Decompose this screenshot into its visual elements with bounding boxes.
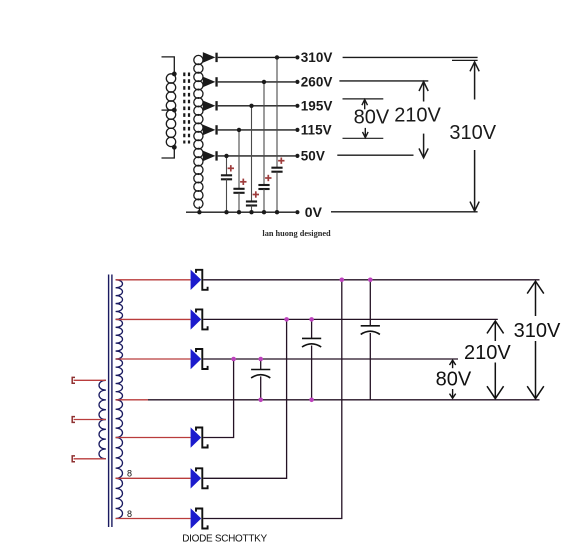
node: primary center tap [172, 108, 177, 113]
wire: primary terminal stub 1 [74, 379, 106, 381]
junction: D5 riser on 210V row [284, 317, 289, 322]
wire: riser from row to capacitor C1 [276, 57, 278, 167]
dimension arrow 310V bottom (up) [527, 281, 544, 316]
label: C2 polarity + [265, 175, 271, 181]
schottky diode D2 [191, 309, 208, 329]
transformer T1 core (dashed) [184, 73, 189, 144]
svg-text:DIODE SCHOTTKY: DIODE SCHOTTKY [182, 533, 267, 544]
junction: C7 on row [309, 317, 314, 322]
schottky diode D3 [191, 349, 208, 369]
pin: primary connector pin 2 [72, 417, 75, 423]
transformer T2 primary winding [99, 380, 106, 459]
dimension arrow 210V bottom (down) [487, 363, 504, 399]
capacitor C6 (polarized) [251, 370, 270, 378]
dimension arrow 210V (down) [419, 134, 428, 158]
node: 310V terminal [295, 55, 299, 59]
node: primary bottom tap [172, 145, 177, 150]
wire: capacitor C5 to 0V rail [226, 179, 228, 212]
junction on row at x=252 [249, 104, 253, 108]
wire: riser from row to capacitor C3 [251, 106, 253, 202]
diode D3 [203, 101, 218, 112]
pin: primary connector pin 1 [72, 377, 75, 383]
label: C4 polarity + [240, 179, 246, 185]
wire: riser from row to capacitor C5 [226, 156, 228, 175]
wire: diode D6 output to 310V row [203, 280, 342, 519]
wire: secondary tap to diode D2 [116, 318, 191, 320]
wire: 310V dimension tick [452, 59, 478, 61]
wire: 310V row (bottom diagram) [203, 279, 539, 281]
svg-text:80V: 80V [354, 107, 390, 129]
capacitor C7 (polarized) [302, 338, 321, 347]
wire: 210V row (bottom diagram) [203, 318, 498, 320]
wire: capacitor C4 to 0V rail [238, 193, 240, 212]
svg-text:50V: 50V [301, 149, 325, 164]
wire: 195V row [218, 105, 296, 107]
wire: 80V row (bottom diagram) [203, 358, 458, 360]
svg-text:310V: 310V [449, 122, 496, 144]
wire: C6 top lead [260, 359, 262, 370]
wire: C8 bottom lead [369, 333, 371, 400]
junction on row at x=239 [237, 128, 241, 132]
dimension arrow 80V (down) [363, 128, 369, 138]
node: 115V terminal [295, 128, 299, 132]
label: C1 polarity + [278, 158, 284, 164]
transformer T1 primary winding [162, 57, 176, 158]
junction on 0V rail at x=277 [275, 210, 279, 214]
dimension arrow 310V (down) [470, 150, 479, 211]
dimension arrow 80V (up) [362, 100, 368, 110]
junction on row at x=226 [224, 154, 228, 158]
dimension arrow 80V bottom (down) [450, 389, 456, 398]
wire: capacitor C2 to 0V rail [263, 189, 265, 212]
wire: diode D5 output to 210V row [203, 319, 286, 478]
svg-text:lan huong designed: lan huong designed [262, 229, 331, 238]
svg-text:260V: 260V [301, 75, 333, 90]
pin: primary connector pin 3 [72, 456, 75, 462]
wire: riser from row to capacitor C4 [238, 130, 240, 189]
transformer T1 secondary winding [194, 55, 203, 212]
schottky diode D5 [191, 468, 208, 488]
junction on 0V rail at x=264 [262, 210, 266, 214]
wire: C7 bottom lead [311, 346, 313, 400]
wire: secondary tap to diode D3 [116, 358, 191, 360]
diode D1 [203, 52, 218, 63]
dimension arrow 310V bottom (down) [527, 341, 544, 399]
wire: primary center tap stub [162, 109, 175, 111]
svg-text:210V: 210V [394, 105, 441, 127]
wire: 0V reference line [331, 211, 478, 213]
wire: C6 bottom lead [260, 376, 262, 399]
wire: secondary tap to diode D5 [116, 477, 191, 479]
transformer T2 core [109, 275, 112, 528]
diode D5 [203, 151, 218, 162]
junction: C8 on row [368, 278, 373, 283]
dimension arrow 210V bottom (up) [487, 321, 504, 341]
wire: 260V reference line [339, 80, 428, 82]
junction: C6 on 0V rail [258, 398, 263, 403]
wire: C7 top lead [311, 319, 313, 338]
svg-text:195V: 195V [301, 99, 333, 114]
wire: capacitor C3 to 0V rail [251, 206, 253, 213]
wire: secondary tap to diode D4 [116, 437, 191, 439]
node: 50V terminal [295, 154, 299, 158]
capacitor C4 [233, 189, 244, 193]
wire: secondary tap to diode D1 [116, 279, 191, 281]
svg-text:0V: 0V [305, 204, 323, 220]
dimension arrow 210V (up) [419, 82, 428, 102]
wire: 80V lower reference line [343, 137, 384, 139]
junction: secondary bottom to 0V rail [197, 210, 201, 214]
schottky diode D6 [191, 508, 208, 528]
dimension arrow 310V (up) [470, 62, 479, 100]
label: C3 polarity + [253, 191, 259, 197]
svg-text:8: 8 [127, 509, 132, 519]
junction: D6 riser on 310V row [340, 278, 345, 283]
schottky diode D1 [191, 270, 208, 290]
wire: 0V rail [186, 211, 295, 213]
svg-text:210V: 210V [464, 342, 511, 364]
diode D2 [203, 77, 218, 88]
wire: 0V rail (bottom diagram) [148, 399, 540, 401]
svg-text:115V: 115V [301, 123, 332, 138]
label: C5 polarity + [228, 165, 234, 171]
capacitor C5 [221, 175, 232, 179]
wire: primary terminal stub 2 [74, 419, 106, 421]
wire: secondary tap to diode D6 [116, 518, 191, 520]
wire: 115V row [218, 129, 296, 131]
node: 260V terminal [295, 80, 299, 84]
wire: 310V row [218, 56, 296, 58]
wire: 50V reference line [337, 154, 413, 156]
transformer T2 secondary winding [116, 280, 123, 519]
node: 0V terminal [295, 210, 299, 214]
wire: 310V reference line [343, 56, 478, 58]
wire: 80V upper reference line [343, 98, 384, 100]
capacitor C8 (polarized) [361, 326, 380, 335]
node: primary top tap [172, 72, 177, 77]
node: 195V terminal [295, 104, 299, 108]
svg-text:80V: 80V [436, 368, 472, 390]
wire: riser from row to capacitor C2 [263, 82, 265, 185]
wire: C8 top lead [369, 280, 371, 326]
wire: secondary 0V tap (red) [116, 399, 148, 401]
diode D4 [203, 125, 218, 136]
capacitor C1 [271, 168, 282, 172]
junction on 0V rail at x=239 [237, 210, 241, 214]
svg-text:310V: 310V [514, 320, 561, 342]
wire: diode D4 output to 80V row [203, 359, 233, 438]
junction: D4 riser on 80V row [231, 357, 236, 362]
wire: capacitor C1 to 0V rail [276, 172, 278, 213]
junction on 0V rail at x=252 [249, 210, 253, 214]
wire: 260V row [218, 81, 296, 83]
wire: primary terminal stub 3 [74, 458, 106, 460]
junction on row at x=277 [275, 55, 279, 59]
capacitor C2 [258, 185, 269, 189]
schottky diode D4 [191, 427, 208, 447]
junction on 0V rail at x=226 [224, 210, 228, 214]
capacitor C3 [246, 202, 257, 206]
wire: 50V row [218, 155, 296, 157]
junction: C7 on 0V rail [309, 398, 314, 403]
svg-text:310V: 310V [301, 50, 333, 65]
svg-text:8: 8 [127, 468, 132, 478]
dimension arrow 80V bottom (up) [450, 360, 456, 368]
junction on row at x=264 [262, 80, 266, 84]
junction: C6 on row [258, 357, 263, 362]
